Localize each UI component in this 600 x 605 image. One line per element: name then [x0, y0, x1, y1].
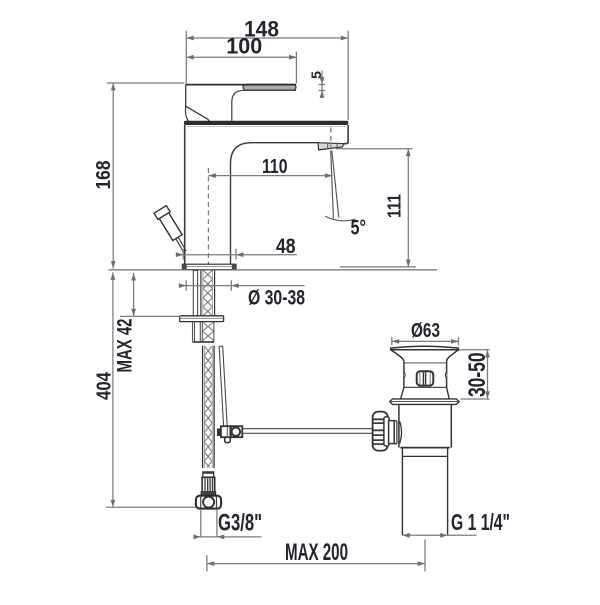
dimension diameter 63: [392, 320, 459, 346]
drain horseshoe washer: [390, 399, 459, 405]
pop-up transmission rod: [219, 346, 227, 426]
svg-text:Ø 30-38: Ø 30-38: [248, 287, 305, 310]
faucet handle lever bar: [186, 84, 296, 90]
dimension 110: [208, 156, 332, 178]
base plate: [182, 264, 236, 269]
water stream 5 degree lines: [325, 151, 355, 221]
drain lock nut: [399, 404, 451, 447]
dimension 148: [186, 17, 348, 121]
svg-text:111: 111: [385, 194, 405, 218]
svg-text:MAX 200: MAX 200: [285, 539, 348, 566]
dimension MAX 42: [114, 273, 181, 373]
braided flexible hose: [203, 346, 215, 468]
dimension 100: [186, 34, 296, 84]
svg-text:168: 168: [93, 161, 115, 190]
svg-text:Ø63: Ø63: [411, 320, 440, 342]
drain neck: [402, 448, 447, 457]
dimension G 1 1/4: [402, 509, 510, 538]
drain body flare: [401, 387, 450, 399]
dimension 30-50: [459, 350, 491, 399]
svg-text:G 1 1/4": G 1 1/4": [451, 509, 510, 535]
svg-text:30-50: 30-50: [464, 353, 491, 398]
handle inner step contour: [232, 90, 296, 120]
horizontal linkage rod: [242, 429, 373, 434]
svg-text:404: 404: [94, 371, 116, 400]
svg-text:5°: 5°: [351, 217, 367, 240]
svg-text:5: 5: [308, 71, 324, 79]
svg-text:100: 100: [226, 34, 262, 59]
body centerline dashed: [207, 168, 209, 267]
knurled coupling nut: [373, 412, 388, 451]
pivot joint block: [217, 426, 242, 442]
drain funnel top: [391, 346, 459, 362]
dimension 5 lever thickness: [308, 71, 325, 98]
hose end hex nut G3/8: [196, 496, 221, 509]
faucet handle base: [185, 85, 208, 122]
linkage collar: [384, 417, 389, 447]
drain screw slot: [417, 371, 434, 385]
countertop line: [109, 269, 438, 271]
mounting nut: [193, 322, 215, 343]
dimension 48: [176, 235, 297, 260]
aerator: [318, 143, 344, 150]
dimension diameter 30-38: [179, 280, 305, 309]
drain side port bulge: [394, 421, 401, 444]
pop-up pull rod knob: [154, 206, 186, 253]
linkage clevis: [389, 421, 395, 444]
faucet body outline: [185, 125, 348, 264]
drain tailpipe: [402, 456, 447, 535]
dimension G3/8: [193, 509, 262, 539]
spout centerline dashed: [330, 128, 332, 151]
svg-text:MAX 42: MAX 42: [114, 319, 137, 373]
dimension 111: [336, 149, 416, 267]
dimension MAX 200: [207, 539, 425, 572]
drain body upper: [404, 362, 447, 388]
dimension 404: [94, 272, 197, 507]
pop-up rod upper tube: [193, 271, 197, 316]
hose ferrule: [203, 472, 214, 477]
label 5 degrees: [351, 217, 367, 240]
svg-text:G3/8": G3/8": [218, 510, 262, 537]
faucet body top band: [184, 121, 348, 127]
svg-text:110: 110: [262, 156, 288, 178]
svg-text:48: 48: [276, 235, 296, 258]
mounting flange washer: [180, 316, 224, 322]
hose connector ribbed body: [201, 477, 216, 495]
threaded shank above flange: [201, 271, 215, 316]
dimension 168: [93, 83, 185, 269]
